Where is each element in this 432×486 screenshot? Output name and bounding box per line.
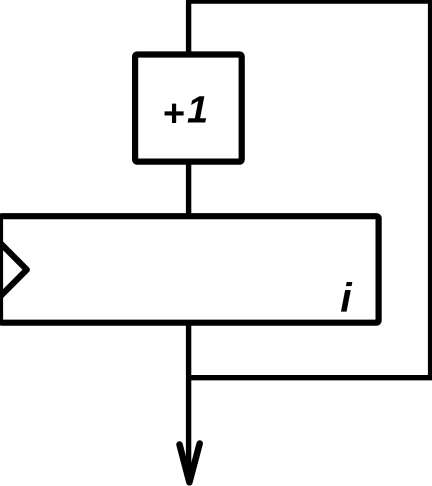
incrementer box +1: [135, 55, 242, 162]
svg-text:+: +: [162, 93, 184, 135]
wire register output shaft: [186, 323, 191, 479]
svg-text:i: i: [340, 274, 353, 320]
wire incrementer to register: [186, 162, 191, 216]
clock chevron on register left edge: [1, 243, 27, 296]
register i box: [0, 216, 379, 323]
svg-text:1: 1: [187, 90, 208, 132]
wire feedback loop (top, right side, bottom connector): [189, 1, 431, 378]
arrowhead: [180, 444, 200, 483]
